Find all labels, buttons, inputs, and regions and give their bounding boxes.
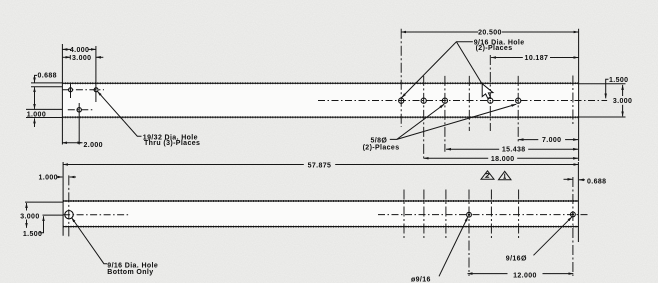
svg-text:20.500: 20.500	[478, 29, 502, 36]
svg-text:0.688: 0.688	[38, 73, 57, 80]
svg-text:7.000: 7.000	[542, 137, 561, 144]
svg-text:57.875: 57.875	[308, 163, 332, 170]
svg-text:5/8Ø: 5/8Ø	[371, 138, 388, 145]
svg-text:15.438: 15.438	[502, 147, 526, 154]
svg-text:3.000: 3.000	[613, 98, 632, 105]
svg-text:1.500: 1.500	[23, 231, 42, 238]
svg-text:Thru (3)-Places: Thru (3)-Places	[144, 140, 200, 147]
svg-text:Bottom Only: Bottom Only	[107, 269, 153, 276]
svg-text:1.000: 1.000	[27, 112, 46, 119]
svg-text:1.500: 1.500	[609, 77, 628, 84]
svg-text:3.000: 3.000	[20, 213, 39, 220]
svg-text:3.000: 3.000	[72, 55, 91, 62]
svg-text:2.000: 2.000	[84, 142, 103, 149]
svg-text:0.688: 0.688	[587, 179, 606, 186]
svg-text:1.000: 1.000	[39, 175, 58, 182]
svg-text:10.187: 10.187	[525, 55, 549, 62]
svg-text:ø9/16: ø9/16	[411, 276, 431, 283]
svg-text:9/16Ø: 9/16Ø	[506, 255, 527, 262]
svg-text:12.000: 12.000	[513, 273, 537, 280]
svg-text:18.000: 18.000	[491, 156, 515, 163]
svg-text:(2)-Places: (2)-Places	[363, 145, 400, 152]
svg-text:4.000: 4.000	[70, 47, 89, 54]
svg-text:(2)-Places: (2)-Places	[476, 45, 513, 52]
